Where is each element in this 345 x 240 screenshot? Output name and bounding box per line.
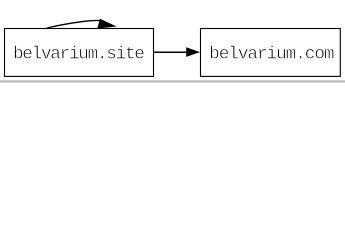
self-loop arrowhead — [97, 19, 116, 29]
node belvarium.site label — [13, 45, 144, 65]
horizontal rule at page bottom — [0, 80, 345, 83]
node belvarium.com label — [209, 45, 334, 65]
svg-text:belvarium.site: belvarium.site — [13, 45, 144, 65]
self-loop edge belvarium.site->belvarium.site wire — [46, 20, 99, 28]
node belvarium.com box — [201, 29, 341, 77]
edge belvarium.site->belvarium.com wire — [153, 51, 187, 53]
node belvarium.site box — [5, 29, 154, 77]
edge belvarium.site->belvarium.com arrowhead — [186, 47, 200, 57]
svg-text:belvarium.com: belvarium.com — [209, 45, 334, 65]
